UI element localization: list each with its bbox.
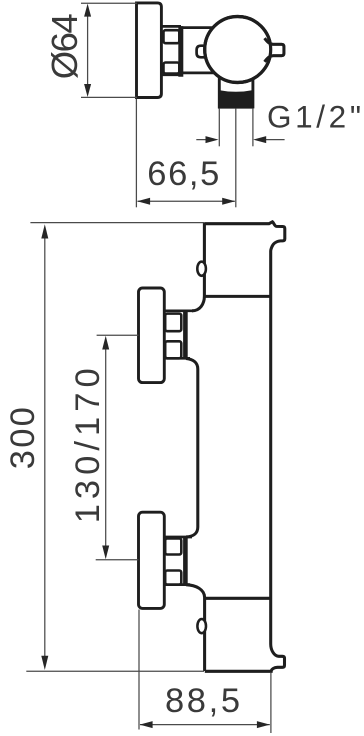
svg-text:Ø64: Ø64 <box>44 13 85 79</box>
svg-text:88,5: 88,5 <box>165 682 240 720</box>
svg-text:300: 300 <box>4 407 42 469</box>
svg-text:66,5: 66,5 <box>147 155 219 193</box>
